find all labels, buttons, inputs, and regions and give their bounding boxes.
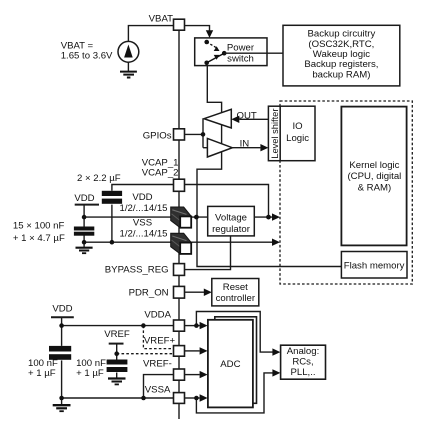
svg-text:+ 1 µF: + 1 µF: [76, 368, 104, 379]
svg-text:VSS: VSS: [133, 217, 152, 228]
svg-text:regulator: regulator: [212, 224, 251, 235]
svg-text:IO: IO: [293, 121, 303, 132]
svg-text:1/2/...14/15: 1/2/...14/15: [119, 203, 167, 214]
svg-text:IN: IN: [240, 139, 250, 150]
svg-text:ADC: ADC: [220, 359, 240, 370]
svg-text:(CPU, digital: (CPU, digital: [347, 171, 401, 182]
svg-text:VDD: VDD: [132, 192, 152, 203]
svg-text:1/2/...14/15: 1/2/...14/15: [119, 228, 167, 239]
svg-text:1.65 to 3.6V: 1.65 to 3.6V: [61, 50, 113, 61]
svg-text:15 × 100 nF: 15 × 100 nF: [13, 221, 65, 232]
svg-text:controller: controller: [216, 293, 256, 304]
svg-text:VREF+: VREF+: [144, 335, 176, 346]
svg-text:+ 1 µF: + 1 µF: [28, 368, 56, 379]
svg-text:PDR_ON: PDR_ON: [129, 288, 169, 299]
svg-text:VCAP_2: VCAP_2: [142, 167, 179, 178]
svg-text:switch: switch: [227, 54, 254, 65]
svg-text:VSSA: VSSA: [145, 385, 171, 396]
svg-text:RCs,: RCs,: [292, 356, 313, 367]
svg-text:Level shifter: Level shifter: [270, 109, 280, 159]
svg-text:Logic: Logic: [286, 133, 309, 144]
svg-text:VDD: VDD: [52, 304, 72, 315]
svg-text:Power: Power: [227, 42, 255, 53]
svg-text:PLL,..: PLL,..: [290, 367, 315, 378]
svg-text:+ 1 × 4.7 µF: + 1 × 4.7 µF: [13, 233, 65, 244]
svg-text:VBAT: VBAT: [149, 14, 173, 25]
svg-text:VREF-: VREF-: [143, 358, 172, 369]
svg-text:VREF: VREF: [104, 329, 130, 340]
svg-text:2 × 2.2 µF: 2 × 2.2 µF: [77, 173, 121, 184]
svg-text:backup RAM): backup RAM): [312, 69, 370, 80]
svg-text:VDD: VDD: [74, 193, 94, 204]
svg-text:Kernel logic: Kernel logic: [349, 160, 399, 171]
svg-text:Reset: Reset: [223, 282, 248, 293]
svg-text:OUT: OUT: [237, 110, 257, 121]
svg-text:& RAM): & RAM): [358, 182, 392, 193]
svg-text:BYPASS_REG: BYPASS_REG: [105, 264, 169, 275]
svg-text:Analog:: Analog:: [287, 346, 320, 357]
svg-text:Voltage: Voltage: [215, 213, 247, 224]
svg-text:VDDA: VDDA: [144, 310, 171, 321]
svg-text:GPIOs: GPIOs: [143, 131, 172, 142]
svg-text:Flash memory: Flash memory: [344, 260, 405, 271]
